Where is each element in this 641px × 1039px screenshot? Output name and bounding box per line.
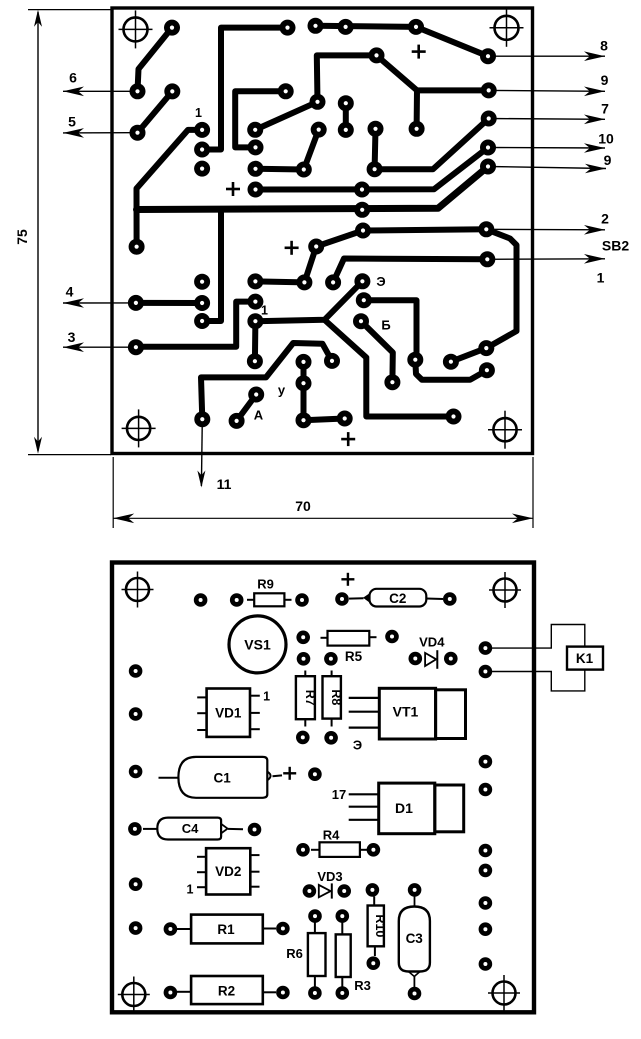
svg-text:9: 9: [604, 152, 612, 168]
svg-text:10: 10: [598, 131, 614, 147]
svg-text:1: 1: [597, 270, 605, 286]
svg-text:17: 17: [332, 787, 346, 802]
svg-text:6: 6: [69, 70, 77, 86]
svg-text:C4: C4: [182, 821, 199, 836]
svg-text:Э: Э: [376, 274, 385, 289]
svg-text:Б: Б: [381, 318, 390, 333]
svg-text:1: 1: [195, 106, 202, 120]
svg-text:у: у: [278, 383, 286, 398]
svg-text:SB2: SB2: [602, 238, 629, 254]
svg-text:70: 70: [295, 498, 311, 514]
svg-text:7: 7: [601, 101, 609, 117]
svg-text:R6: R6: [286, 946, 303, 961]
svg-text:VD3: VD3: [317, 869, 342, 884]
svg-text:1: 1: [187, 882, 194, 896]
svg-text:C1: C1: [213, 770, 231, 785]
svg-text:11: 11: [217, 476, 232, 492]
svg-text:D1: D1: [395, 800, 413, 816]
svg-text:R3: R3: [354, 978, 371, 993]
svg-text:R2: R2: [218, 983, 235, 998]
svg-text:VD2: VD2: [215, 864, 241, 879]
svg-text:Э: Э: [353, 738, 362, 753]
svg-text:4: 4: [66, 284, 74, 300]
svg-text:R7: R7: [303, 690, 317, 706]
svg-text:9: 9: [601, 72, 609, 88]
svg-text:R4: R4: [323, 828, 340, 843]
svg-text:R9: R9: [257, 577, 274, 592]
svg-text:R5: R5: [345, 649, 363, 664]
svg-text:VS1: VS1: [244, 637, 271, 653]
svg-text:C3: C3: [406, 931, 424, 946]
svg-text:VD1: VD1: [215, 705, 242, 720]
svg-text:R8: R8: [329, 689, 343, 705]
svg-text:R1: R1: [217, 922, 235, 937]
svg-text:1: 1: [261, 304, 268, 318]
svg-text:8: 8: [600, 38, 608, 54]
svg-text:А: А: [254, 408, 264, 423]
svg-text:1: 1: [263, 690, 270, 704]
svg-text:75: 75: [14, 229, 30, 245]
svg-text:VT1: VT1: [393, 704, 419, 720]
svg-text:R10: R10: [373, 914, 387, 937]
svg-text:2: 2: [601, 211, 609, 227]
svg-text:3: 3: [68, 329, 76, 345]
svg-text:C2: C2: [389, 591, 406, 606]
svg-text:K1: K1: [576, 651, 594, 666]
svg-text:5: 5: [68, 114, 76, 130]
svg-text:VD4: VD4: [419, 634, 445, 649]
